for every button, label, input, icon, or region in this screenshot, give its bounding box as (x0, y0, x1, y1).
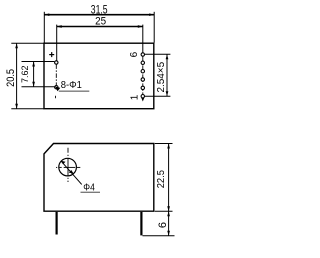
body outline side view (44, 144, 154, 212)
svg-text:25: 25 (95, 16, 106, 28)
pin 1 lower arrow mark (141, 98, 144, 102)
pin 3 (141, 78, 144, 81)
pin 2 (141, 86, 144, 89)
body outline top view (44, 43, 154, 109)
pin 5 (141, 61, 144, 64)
svg-text:20.5: 20.5 (5, 69, 17, 87)
svg-text:31.5: 31.5 (91, 3, 108, 17)
pin 8-phi1 (left bottom) (55, 86, 58, 89)
dimension 31.5 (44, 3, 154, 43)
left pin side view (55, 212, 57, 235)
phi4 leader underline (81, 191, 101, 193)
svg-text:8-Φ1: 8-Φ1 (61, 79, 82, 91)
svg-text:2.54×5: 2.54×5 (155, 62, 167, 93)
right pin side view (140, 212, 142, 236)
right pin column centerline (142, 56, 144, 94)
pin 6 (141, 53, 144, 56)
dimension 22.5 (155, 144, 173, 212)
pin 4 (141, 70, 144, 73)
dimension 7.62 (20, 62, 55, 87)
dimension 6 (pin length) (143, 211, 175, 236)
dimension 20.5 (5, 43, 44, 109)
hole crosshair horizontal (56, 166, 80, 168)
hole crosshair vertical (67, 148, 69, 182)
svg-text:6: 6 (157, 222, 169, 228)
svg-text:22.5: 22.5 (156, 170, 167, 189)
svg-text:Φ4: Φ4 (83, 183, 95, 194)
pin 1 (141, 95, 144, 98)
8-phi1 leader underline (59, 90, 90, 92)
8-phi1 leader arrow (55, 86, 60, 91)
dimension 2.54x5 (145, 54, 171, 96)
svg-text:7.62: 7.62 (20, 66, 31, 84)
pin plus (left top) (55, 61, 58, 64)
mounting hole circle (59, 158, 77, 176)
dimension 25 (57, 16, 143, 61)
phi4 diameter arrows (61, 161, 66, 165)
svg-text:6: 6 (129, 51, 140, 57)
left pin column centerline (55, 64, 58, 98)
phi4 leader line (61, 161, 81, 184)
svg-text:1: 1 (130, 94, 141, 100)
polarity mark + (49, 52, 54, 57)
